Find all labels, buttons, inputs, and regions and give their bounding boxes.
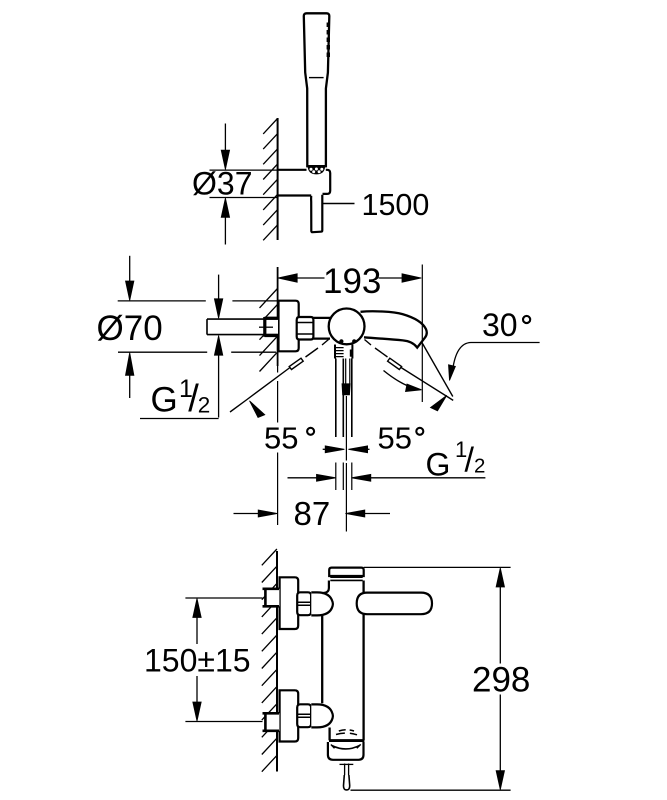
union nut hex (middle) bbox=[297, 317, 314, 340]
dashed swing line left (55°) bbox=[322, 340, 329, 346]
main body bbox=[362, 581, 364, 741]
upper union hex bbox=[297, 592, 311, 615]
rotation arc arrow right bbox=[384, 371, 418, 390]
dashed swing line right (55°) bbox=[365, 340, 372, 346]
dimension 150±15 extension lines bbox=[185, 598, 262, 722]
30° tilt line bbox=[423, 344, 453, 397]
lever handle bbox=[357, 593, 432, 615]
wall line (middle view) bbox=[277, 267, 279, 366]
svg-text:1500: 1500 bbox=[362, 188, 430, 222]
55° right tangent arrowhead bbox=[431, 395, 447, 411]
svg-text:30: 30 bbox=[482, 307, 518, 343]
hand shower body bbox=[304, 13, 330, 166]
lower inlet pipe bbox=[265, 713, 279, 731]
dimension 150±15 line + arrows bbox=[196, 618, 198, 645]
svg-text:55: 55 bbox=[264, 421, 298, 456]
svg-text:/: / bbox=[465, 442, 475, 480]
lower union hex bbox=[297, 704, 311, 727]
top cap bbox=[329, 568, 364, 576]
wall hatching (bottom view) bbox=[262, 549, 277, 772]
upper inlet pipe bbox=[265, 589, 279, 607]
55° vertex arrows bbox=[323, 448, 327, 450]
handle stem tubes bbox=[336, 359, 352, 438]
dimension Ø70 arrows (outside pair at x=129.7) bbox=[129, 256, 131, 281]
cup inner arc bbox=[332, 745, 360, 749]
supply pipe (middle) bbox=[207, 319, 278, 335]
G1/2 pipe arrows (pair at x=218.6) bbox=[218, 275, 220, 299]
escutcheon flange (middle) bbox=[279, 301, 299, 352]
hand shower spray face dome bbox=[308, 168, 324, 174]
dimension 193 extension right bbox=[421, 265, 423, 403]
upper cone connector bbox=[311, 592, 333, 615]
pipe centerline tick bbox=[259, 326, 273, 328]
handle end cap bbox=[342, 384, 350, 395]
pipe socket at wall bbox=[265, 317, 278, 337]
hand shower spray strip bbox=[327, 23, 330, 60]
svg-text:G: G bbox=[151, 381, 178, 420]
rotated handle end left bbox=[289, 358, 303, 369]
hidden ellipse arcs above outlet bbox=[339, 730, 354, 731]
dimension 298 line + arrows bbox=[499, 587, 501, 772]
outlet stem dashes bbox=[340, 763, 354, 765]
hand shower bottom cap line bbox=[307, 165, 326, 167]
298 top extension line bbox=[364, 566, 511, 568]
55° left tangent arrowhead bbox=[250, 401, 265, 418]
pivot dots bbox=[339, 339, 343, 343]
dimension 193 line + arrows bbox=[297, 277, 325, 279]
handle stem: threaded outlet bbox=[335, 345, 352, 359]
298 bottom extension line bbox=[351, 789, 511, 791]
ball joint bbox=[329, 309, 365, 345]
svg-text:55: 55 bbox=[378, 421, 412, 456]
svg-text:87: 87 bbox=[294, 495, 331, 532]
wall (top view) bbox=[277, 118, 279, 240]
svg-text:Ø70: Ø70 bbox=[97, 309, 163, 348]
wall hatching (top view) bbox=[263, 119, 277, 241]
holder bracket bbox=[278, 170, 330, 196]
dimension Ø37 line + arrows bbox=[224, 124, 226, 151]
rotated handle end right bbox=[388, 358, 402, 369]
outlet separation line bbox=[329, 739, 364, 742]
hand shower seam line bbox=[309, 77, 324, 79]
upper escutcheon bbox=[280, 577, 299, 629]
svg-text:150±15: 150±15 bbox=[144, 643, 251, 679]
svg-text:2: 2 bbox=[474, 455, 485, 478]
svg-text:G: G bbox=[426, 447, 451, 483]
spout bbox=[361, 311, 427, 347]
dimension Ø37 extension lines bbox=[210, 170, 278, 197]
body between nut and ball bbox=[313, 318, 330, 339]
leader line 1500 bbox=[323, 203, 355, 205]
svg-text:2: 2 bbox=[198, 392, 211, 417]
wall hatching (middle view) bbox=[260, 289, 278, 372]
lower escutcheon bbox=[280, 690, 299, 741]
wall line (bottom view) bbox=[276, 551, 278, 772]
outlet cup bbox=[328, 742, 364, 760]
dimension Ø70 extension lines bbox=[118, 301, 277, 352]
neck under cap bbox=[322, 581, 329, 594]
droplet / pull knob bbox=[343, 775, 349, 790]
dimension 87 bbox=[234, 513, 259, 515]
svg-text:193: 193 bbox=[323, 262, 381, 301]
stem extension lines below bbox=[336, 463, 352, 491]
centerline bbox=[345, 396, 347, 532]
wall extension line down to 87 dim bbox=[277, 366, 279, 525]
svg-text:298: 298 bbox=[472, 661, 530, 700]
lower cone connector bbox=[311, 704, 333, 727]
svg-text:Ø37: Ø37 bbox=[192, 166, 252, 202]
shower hose bbox=[311, 195, 322, 232]
